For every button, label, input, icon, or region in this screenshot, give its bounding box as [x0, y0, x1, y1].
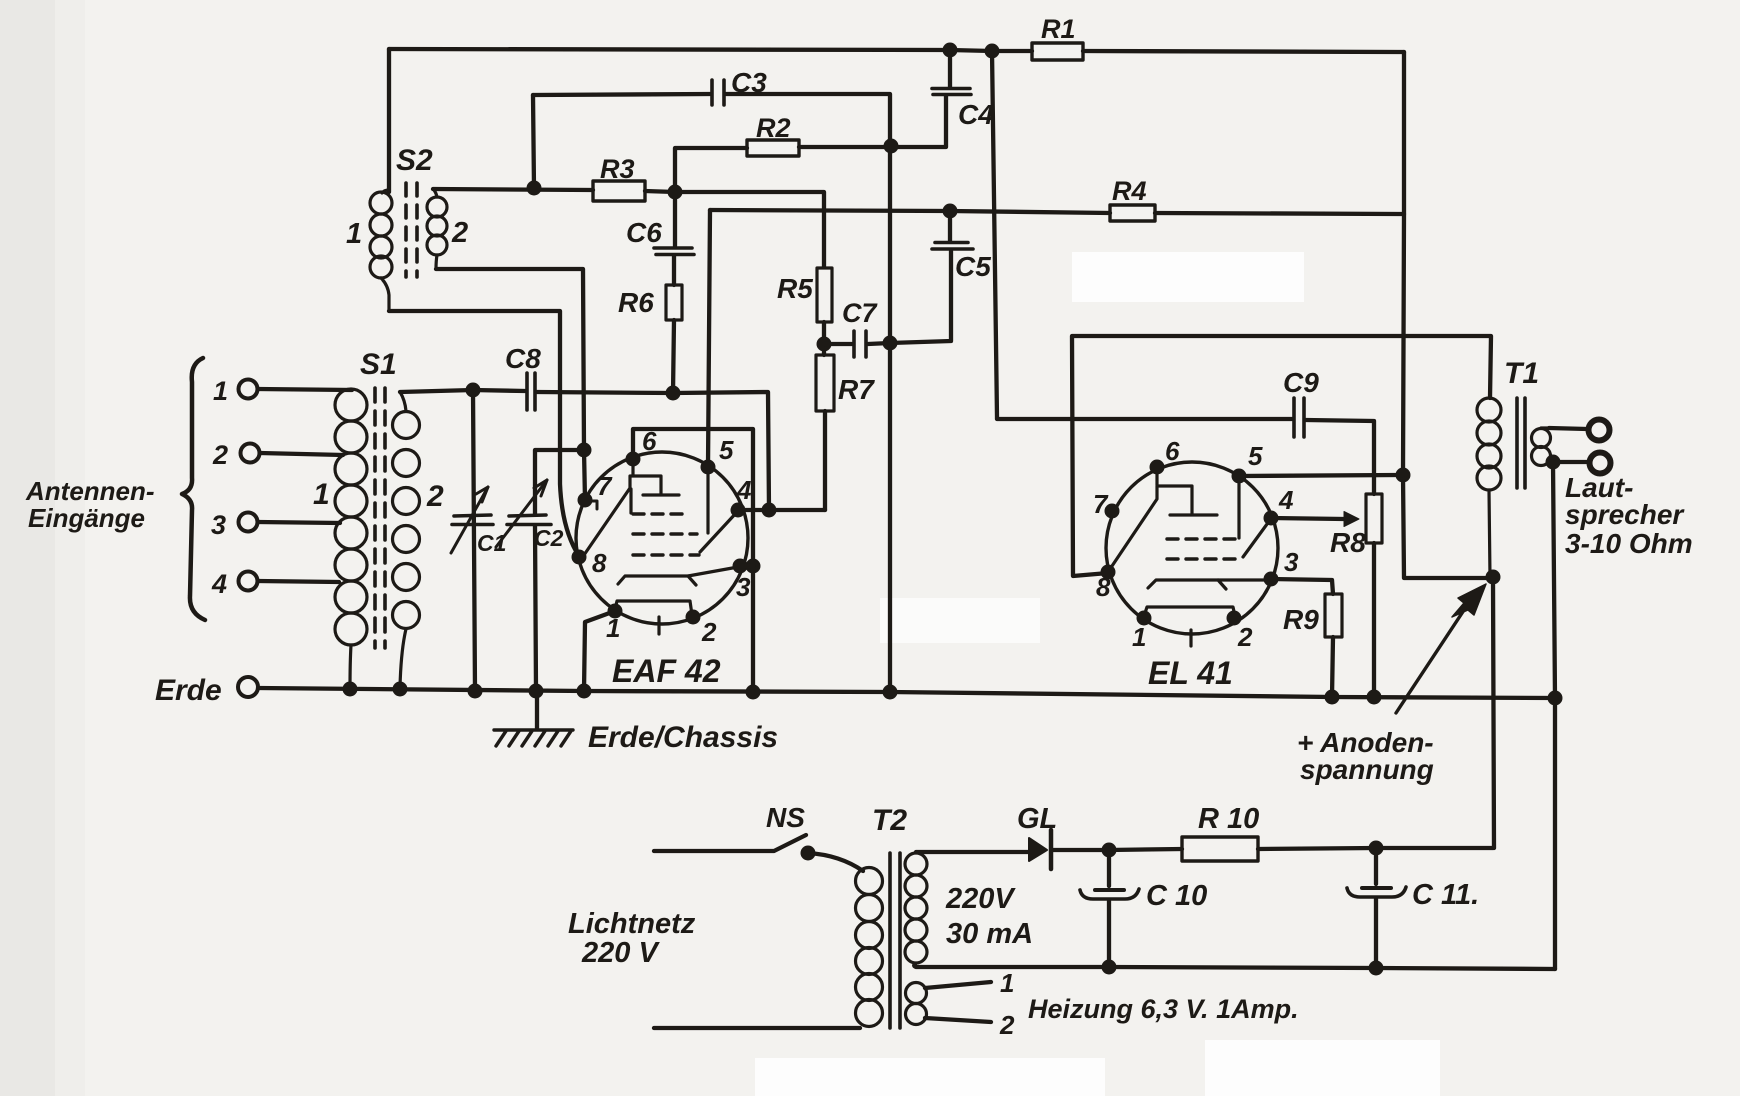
wire R3 right to R5 riser — [645, 191, 824, 267]
terminal antenna 2 — [241, 444, 260, 463]
wire PSU negative rail — [914, 964, 1555, 969]
svg-text:3: 3 — [211, 510, 226, 540]
wire S2 secondary bottom to EAF pin7 — [436, 269, 585, 500]
svg-text:Erde: Erde — [155, 674, 222, 707]
svg-text:Heizung 6,3 V. 1Amp.: Heizung 6,3 V. 1Amp. — [1028, 994, 1299, 1024]
node ground R8 — [1367, 690, 1382, 705]
transformer T2 core — [890, 853, 900, 1028]
transformer T1 primary coil — [1477, 398, 1501, 577]
node PSU rail C11 — [1369, 961, 1384, 976]
capacitor C3 wire left — [533, 94, 710, 95]
wire mains bottom — [654, 1026, 860, 1030]
svg-text:1: 1 — [313, 478, 330, 511]
tube EAF42 pin6 internal lead — [631, 461, 634, 475]
transformer T2 secondary coil 220V — [905, 853, 927, 963]
svg-text:8: 8 — [1096, 572, 1111, 602]
pin EL41 5 — [1232, 469, 1247, 484]
svg-text:spannung: spannung — [1300, 754, 1434, 785]
wire C3 branch down to R3 node — [533, 95, 534, 188]
wire R9 bottom to ground rail — [1332, 637, 1333, 697]
svg-text:4: 4 — [1278, 485, 1294, 515]
wire R2 left lead down to R3 node — [675, 148, 747, 192]
variable capacitor C1 — [452, 515, 493, 525]
wire antenna 1 to S1 — [258, 389, 352, 390]
capacitor C6 lead — [673, 192, 677, 246]
svg-text:2: 2 — [212, 440, 228, 470]
node speaker return — [1546, 455, 1561, 470]
svg-text:C1: C1 — [477, 530, 506, 556]
svg-text:5: 5 — [1248, 441, 1263, 471]
capacitor C8 — [527, 373, 535, 410]
svg-text:C5: C5 — [955, 251, 991, 282]
tube EL41 heater — [1144, 607, 1235, 616]
svg-text:T2: T2 — [872, 804, 907, 837]
svg-text:1: 1 — [346, 218, 362, 250]
svg-text:1: 1 — [1000, 968, 1014, 998]
tube EAF42 grid g2 — [633, 532, 697, 535]
pin EL41 6 — [1150, 460, 1165, 475]
resistor R4 — [1110, 205, 1155, 221]
svg-text:R5: R5 — [777, 273, 813, 304]
node ground EAF pin1 — [577, 684, 592, 699]
pin EL41 2 — [1227, 611, 1242, 626]
svg-text:C7: C7 — [842, 298, 878, 328]
node PSU rail C10 — [1102, 960, 1117, 975]
wire switch to T2 primary — [808, 853, 863, 871]
svg-text:T1: T1 — [1504, 357, 1539, 390]
ground chassis symbol — [535, 692, 539, 729]
resistor R8 potentiometer — [1366, 494, 1382, 543]
wire EL41 pin8 rectangle to T1 — [1072, 336, 1491, 576]
svg-text:R3: R3 — [600, 154, 635, 184]
svg-text:7: 7 — [1093, 489, 1109, 519]
pin EL41 3 — [1264, 572, 1279, 587]
svg-text:7: 7 — [597, 471, 613, 501]
node pin4 / C8-riser junction — [762, 503, 777, 518]
transformer S1 secondary coil — [393, 392, 420, 687]
transformer S2 secondary coil — [427, 189, 447, 269]
node ground C2 / chassis — [529, 684, 544, 699]
svg-text:R2: R2 — [756, 113, 791, 143]
svg-text:sprecher: sprecher — [1565, 499, 1685, 530]
transformer S2 primary coil — [370, 190, 392, 311]
node GL / C10 junction — [1102, 843, 1117, 858]
wire heater lead 2 — [925, 1018, 991, 1022]
wire EL41 pin4 arrow to R8 — [1271, 518, 1344, 519]
wire ground rail — [258, 688, 1555, 698]
tube EL41 g2 to pin4 — [1243, 520, 1270, 557]
wire C4 top lead — [948, 50, 952, 87]
resistor R10 — [1182, 837, 1258, 861]
pin EAF42 5 — [701, 460, 716, 475]
tube EAF42 cathode — [618, 567, 738, 585]
tube EAF42 envelope — [576, 452, 748, 624]
svg-text:Lichtnetz: Lichtnetz — [568, 908, 696, 940]
wire R8 bottom to ground rail — [1372, 543, 1376, 697]
node C7 / x890 junction — [883, 336, 898, 351]
svg-text:C8: C8 — [505, 343, 541, 374]
capacitor C5 lead top — [948, 211, 952, 241]
svg-text:3-10 Ohm: 3-10 Ohm — [1565, 528, 1693, 559]
capacitor C6 — [654, 248, 694, 255]
svg-text:NS: NS — [766, 802, 805, 833]
wire R4 right to B+ vertical — [1155, 213, 1404, 214]
wire R7 bottom to pin4 wire — [823, 411, 827, 510]
wire S2 primary bottom to EAF pin8 — [389, 311, 579, 556]
svg-text:R1: R1 — [1041, 14, 1076, 44]
resistor R1 — [1032, 43, 1083, 60]
wire R2 right lead to C4 bottom — [799, 96, 946, 147]
wire EL41 pin3 to R9 — [1271, 579, 1333, 594]
node C2 tap on pin7 riser — [577, 443, 592, 458]
pin EAF42 4 — [731, 503, 746, 518]
svg-text:R8: R8 — [1330, 527, 1366, 558]
svg-text:8: 8 — [592, 548, 607, 578]
svg-text:4: 4 — [736, 475, 752, 505]
svg-text:6: 6 — [1165, 436, 1180, 466]
pin EL41 7 — [1105, 504, 1120, 519]
wire left vertical from top rail to S2 primary — [387, 49, 391, 192]
tube EAF42 grid g1 — [633, 512, 690, 515]
svg-text:2: 2 — [1237, 622, 1253, 652]
tube EAF42 g3 to pin4 — [700, 512, 737, 552]
transformer T1 secondary coil — [1532, 428, 1554, 466]
node pin5 EL / B+ vertical — [1396, 468, 1411, 483]
terminal antenna 1 — [239, 380, 258, 399]
wire EAF pin4 to R7 — [738, 508, 825, 512]
svg-text:2: 2 — [999, 1010, 1015, 1040]
svg-text:R7: R7 — [838, 374, 875, 405]
tube EL41 grid g1 — [1167, 537, 1236, 540]
svg-text:1: 1 — [606, 613, 620, 643]
svg-text:1: 1 — [1132, 622, 1146, 652]
capacitor C9 — [1294, 398, 1304, 437]
terminal antenna 4 — [239, 572, 258, 591]
capacitor C5 — [932, 243, 973, 250]
wire R5 bottom to R7 top — [822, 322, 826, 355]
wire C2 branch from pin7 riser — [535, 450, 584, 514]
wire T1 secondary bottom to speaker — [1553, 460, 1588, 464]
wire antenna 3 tap — [258, 522, 340, 523]
pin EL41 1 — [1137, 611, 1152, 626]
svg-text:3: 3 — [1284, 547, 1299, 577]
svg-text:R9: R9 — [1283, 604, 1319, 635]
wire GL to R10 — [1051, 849, 1182, 850]
transformer T2 primary coil — [856, 868, 883, 1027]
wire B+ vertical x1404 — [1403, 52, 1493, 578]
capacitor C3 wire right to x890 vertical — [726, 94, 890, 144]
svg-text:C9: C9 — [1283, 367, 1319, 398]
tube EAF42 grid g3 — [633, 553, 699, 556]
wire C9 branch riser from top rail — [992, 51, 1292, 419]
tube EL41 grid g2 — [1167, 557, 1240, 560]
node ground right end — [1548, 691, 1563, 706]
svg-text:3: 3 — [736, 572, 751, 602]
tube EL41 cathode — [1148, 580, 1269, 589]
svg-text:C 10: C 10 — [1146, 880, 1207, 912]
wire C5 bottom to C7 node — [890, 251, 951, 343]
wire T2 secondary top to GL — [916, 850, 1028, 854]
svg-text:S1: S1 — [360, 348, 397, 381]
svg-text:C2: C2 — [534, 525, 564, 551]
transformer S1 primary coil — [335, 389, 367, 689]
svg-text:Antennen-: Antennen- — [25, 476, 155, 506]
transformer T2 heater winding — [906, 983, 927, 1025]
capacitor C10 — [1107, 850, 1111, 886]
transformer T1 core — [1517, 398, 1525, 488]
wire x890 vertical (C3/R2/C7 to ground rail) — [888, 144, 892, 692]
resistor R3 — [593, 181, 645, 201]
wire C9 right to R8 top — [1306, 420, 1374, 494]
svg-text:2: 2 — [451, 217, 468, 249]
antenna input brace — [182, 358, 205, 620]
anode voltage arrow — [1396, 601, 1470, 713]
svg-text:1: 1 — [213, 376, 228, 406]
wire C8 right to pin4 riser — [537, 392, 769, 510]
wire R6 bottom to C8 wire — [673, 320, 674, 393]
wire EL41 pin5 to B+ vertical — [1239, 475, 1403, 476]
node C8 / R6 junction — [666, 386, 681, 401]
node B+ / T1 junction — [1486, 570, 1501, 585]
capacitor C7 wire — [824, 343, 890, 344]
transformer S1 core — [375, 388, 385, 648]
tube EAF42 anode structure — [584, 476, 679, 555]
tube EL41 anode structure — [1110, 486, 1217, 569]
svg-text:Erde/Chassis: Erde/Chassis — [588, 721, 778, 754]
pin EAF42 2 — [686, 610, 701, 625]
resistor R7 — [816, 355, 834, 411]
pin EAF42 8 — [572, 550, 587, 565]
svg-text:S2: S2 — [396, 144, 433, 177]
svg-text:C 11.: C 11. — [1412, 879, 1479, 911]
pin EAF42 6 — [626, 452, 641, 467]
node C3 / S2 wire junction — [527, 181, 542, 196]
wire top supply rail — [389, 49, 1032, 51]
capacitor C11 — [1374, 848, 1378, 884]
wire EAF pin3 stub — [740, 564, 753, 568]
wire antenna 2 tap — [260, 453, 343, 455]
pin EAF42 7 — [578, 493, 593, 508]
svg-text:2: 2 — [426, 480, 444, 513]
svg-text:Eingänge: Eingänge — [28, 503, 145, 533]
svg-text:30 mA: 30 mA — [946, 918, 1033, 950]
node top-rail / C9-branch tap — [985, 44, 1000, 59]
wire B+ down to R10 — [1493, 578, 1494, 848]
tube EAF42 bottom tick — [657, 617, 660, 634]
wire EAF pin5 riser to R4 rail — [708, 210, 710, 467]
resistor R6 — [672, 256, 676, 285]
capacitor C4 — [932, 89, 971, 95]
pin EL41 8 — [1101, 565, 1116, 580]
node ground S1 primary — [343, 682, 358, 697]
node R4 rail / C5 junction — [943, 204, 958, 219]
resistor R5 — [817, 268, 832, 322]
wire EAF pin1 to ground — [584, 611, 615, 691]
node ground S1 secondary — [393, 682, 408, 697]
node C8 / C1 junction — [466, 383, 481, 398]
node R2 / C4 / x890 junction — [884, 139, 899, 154]
pin EAF42 1 — [608, 604, 623, 619]
capacitor C7 — [854, 331, 866, 357]
tube EAF42 heater — [615, 601, 692, 615]
tube EL41 envelope — [1106, 462, 1278, 634]
node R3 / R2 / C6 junction — [668, 185, 683, 200]
terminal speaker bottom — [1590, 453, 1611, 474]
wire heater lead 1 — [925, 982, 991, 988]
capacitor C3 — [712, 80, 724, 105]
node ground x890 — [883, 685, 898, 700]
svg-text:R4: R4 — [1112, 176, 1147, 206]
tube EAF42 pin5 internal lead — [706, 469, 709, 533]
svg-text:R 10: R 10 — [1198, 803, 1259, 835]
transformer S2 core — [406, 183, 417, 277]
tube EAF42 pin7 stub — [587, 501, 597, 509]
wire S2 secondary top to R3 — [433, 189, 593, 190]
terminal antenna 3 — [239, 513, 258, 532]
wire speaker return to ground and PSU — [1553, 462, 1555, 969]
tube EL41 bottom tick — [1189, 630, 1192, 646]
wire R10 right to B+ riser — [1258, 848, 1493, 849]
tube EL41 pin6 internal lead — [1155, 469, 1158, 485]
node R10 / C11 junction — [1369, 841, 1384, 856]
tube EL41 pin5 internal lead — [1237, 478, 1240, 538]
variable capacitor C2 — [507, 515, 551, 525]
node ground C1 — [468, 684, 483, 699]
svg-text:EL 41: EL 41 — [1148, 655, 1233, 691]
wire T1 secondary top to speaker — [1549, 428, 1587, 429]
svg-text:R6: R6 — [618, 287, 654, 318]
node R5 / C7 junction — [817, 337, 832, 352]
svg-text:5: 5 — [719, 435, 734, 465]
wire EAF pin6 loop to pin3 and ground — [633, 429, 753, 692]
svg-text:C6: C6 — [626, 217, 662, 248]
node ground EAF pin3 branch — [746, 685, 761, 700]
svg-text:2: 2 — [701, 617, 717, 647]
wire R4 rail from EAF pin5 riser — [710, 210, 1110, 213]
node top-rail / C4 tap — [943, 43, 958, 58]
wire S1 secondary top to C8 — [400, 390, 525, 392]
pin EL41 4 — [1264, 511, 1279, 526]
svg-text:4: 4 — [211, 569, 227, 599]
svg-text:EAF 42: EAF 42 — [612, 653, 721, 689]
terminal Erde — [238, 677, 258, 697]
node ground R9 — [1325, 690, 1340, 705]
wire antenna 4 tap — [258, 581, 339, 582]
terminal speaker top — [1589, 420, 1610, 441]
svg-text:220 V: 220 V — [581, 937, 660, 969]
svg-text:C4: C4 — [958, 99, 994, 130]
resistor R9 — [1325, 594, 1342, 637]
wire C1 branch — [473, 390, 475, 691]
svg-text:220V: 220V — [945, 883, 1016, 915]
pin EAF42 3 — [733, 559, 748, 574]
resistor R2 — [747, 140, 799, 156]
